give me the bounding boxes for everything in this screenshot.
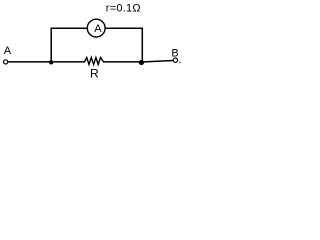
svg-text:r=0.1Ω: r=0.1Ω: [106, 3, 141, 15]
svg-text:R: R: [90, 66, 99, 80]
svg-text:A: A: [4, 45, 12, 57]
svg-text:B: B: [171, 47, 178, 59]
svg-text:A: A: [94, 23, 102, 35]
